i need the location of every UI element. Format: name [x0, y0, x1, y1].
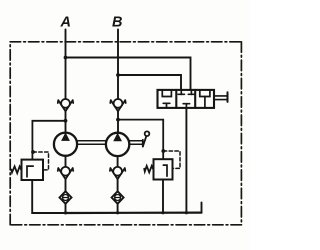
- wire: return line (bottom header): [66, 212, 202, 215]
- DV1 right box: top ports joined to tank: [200, 90, 210, 97]
- DV1 left box: blocked bottom port: [163, 103, 170, 108]
- junction dot on B branch: [116, 73, 120, 77]
- check valve V3 (below P1): [58, 167, 73, 179]
- wire: branch A to relief valve RV1: [32, 121, 65, 160]
- pump P1 (left, circle with up triangle): [54, 133, 77, 156]
- lever control on P2: [129, 131, 149, 146]
- pump P2 (right, circle with up triangle): [106, 133, 129, 156]
- svg-text:A: A: [60, 15, 71, 31]
- wire: port B line down to check valve V2: [117, 30, 119, 100]
- relief valve RV2 pilot line (dashed): [163, 151, 180, 168]
- shaft coupling between P1 and P2: [77, 141, 106, 145]
- inline check valve D2 (diamond with ball): [112, 191, 124, 203]
- DV1 centre box: blocked top ports: [178, 90, 194, 95]
- wire: P2 down to check valve V4: [117, 156, 119, 167]
- DV1 centre box: blocked bottom port: [183, 104, 189, 108]
- check valve V1 (ball and seat, on A line): [58, 99, 73, 111]
- enclosure boundary (dash-dot frame): [10, 42, 241, 225]
- relief valve RV1 internal path: [27, 166, 33, 177]
- relief valve RV1 pilot line (dashed): [33, 152, 49, 170]
- wire: branch B to relief valve RV2: [118, 120, 163, 160]
- directional valve DV1 body (3 position): [158, 90, 215, 108]
- wire: V4 to inline check D2: [117, 179, 119, 192]
- wire: return line end stub (up): [201, 202, 203, 212]
- junction dot on A branch: [64, 56, 68, 60]
- junction dots on return line: [64, 211, 67, 214]
- wire: V1 to pump P1: [65, 111, 67, 133]
- DV1 left box: bridged top ports: [162, 90, 171, 97]
- wire: branch from A to directional valve (top): [66, 58, 191, 90]
- junction dot RV2 pilot: [161, 149, 165, 153]
- wire: P1 down to check valve V3: [65, 156, 67, 167]
- DV1 plunger actuator: [214, 92, 228, 102]
- wire: branch from B to directional valve: [118, 75, 181, 90]
- junction dot A-relief branch: [64, 119, 68, 123]
- check valve V4 (below P2): [110, 167, 125, 179]
- wire: V2 to pump P2: [117, 111, 119, 133]
- wire: DV1 tank port to return line: [185, 108, 187, 213]
- wire: V3 to inline check D1: [65, 179, 67, 192]
- junction dot B-relief branch: [116, 118, 120, 122]
- svg-text:B: B: [112, 15, 122, 31]
- wire: D1 to return line: [65, 204, 67, 213]
- wire: port A line down to check valve V1: [65, 30, 67, 100]
- relief valve RV2 spring: [144, 166, 153, 173]
- relief valve RV1 spring: [11, 166, 21, 173]
- relief valve RV2 body: [154, 159, 173, 179]
- wire: RV1 to return line: [32, 180, 65, 213]
- relief valve RV2 internal path: [163, 165, 167, 176]
- relief valve RV1 body: [22, 160, 44, 180]
- wire: D2 to return line: [117, 204, 119, 213]
- check valve V2 (ball and seat, on B line): [110, 99, 125, 111]
- junction dot RV1 pilot: [31, 150, 35, 154]
- wire: RV2 down to return line: [162, 180, 164, 213]
- inline check valve D1 (diamond with ball): [60, 191, 72, 203]
